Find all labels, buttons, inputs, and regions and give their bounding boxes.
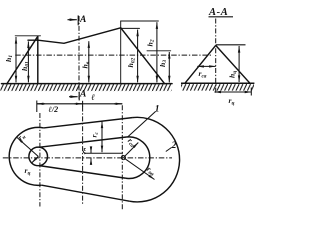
svg-text:h3: h3 [158,60,168,67]
svg-text:ℓ: ℓ [91,92,95,102]
svg-text:ξ: ξ [83,146,87,155]
svg-text:h01: h01 [20,61,30,71]
svg-text:rц: rц [229,96,235,106]
svg-text:ℓ/2: ℓ/2 [49,105,59,114]
svg-text:rса: rса [199,69,207,79]
svg-text:h2: h2 [145,39,155,46]
svg-text:hв: hв [80,61,90,68]
svg-text:h1: h1 [4,55,14,62]
svg-text:h02: h02 [126,57,136,67]
svg-text:rс: rс [90,132,100,138]
svg-text:2: 2 [171,141,177,151]
svg-text:1: 1 [155,104,160,114]
svg-text:A: A [79,15,86,25]
svg-text:rоа: rоа [145,164,158,177]
svg-text:hц: hц [228,71,238,78]
svg-text:A: A [79,89,86,99]
svg-text:rц: rц [25,166,31,176]
